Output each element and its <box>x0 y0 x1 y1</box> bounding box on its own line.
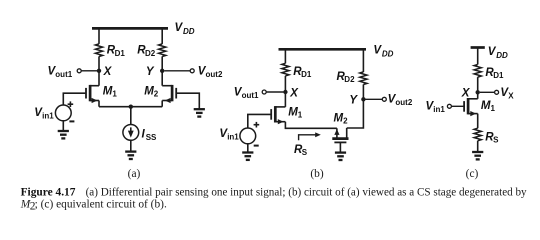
svg-text:D1: D1 <box>301 70 312 79</box>
terminal Vin1 (c) <box>447 104 451 108</box>
svg-text:2: 2 <box>154 89 159 98</box>
svg-text:S: S <box>493 135 499 144</box>
wire: RD2 to node Y and M2 drain corner (a) <box>161 56 163 85</box>
svg-text:in1: in1 <box>42 112 54 121</box>
svg-text:DD: DD <box>496 51 508 60</box>
ground under ISS (a) <box>125 152 136 159</box>
svg-text:M: M <box>334 112 344 124</box>
wire: M1 source down to RS (c) <box>477 114 479 129</box>
wire: Y to Vout2 terminal (a) <box>164 70 190 72</box>
source Vin1 (b) <box>240 128 256 144</box>
transistor M1 (c) <box>464 98 478 116</box>
wire: VDD supply rail (a) <box>92 27 168 30</box>
wire: ISS to ground (a) <box>130 140 132 151</box>
svg-text:out1: out1 <box>242 91 259 100</box>
svg-text:D2: D2 <box>145 49 156 58</box>
node X (b) <box>283 90 287 94</box>
node Y (a) <box>160 69 164 73</box>
wire: X to VX terminal (c) <box>480 91 495 93</box>
wire: rail to RD1 (a) <box>98 27 100 44</box>
wire: Vout1 terminal to X (b) <box>266 91 283 93</box>
source Vin1 (a) <box>55 105 71 121</box>
svg-text:2: 2 <box>343 116 348 125</box>
svg-text:DD: DD <box>183 27 195 36</box>
svg-text:out1: out1 <box>55 70 72 79</box>
ground under Vin1 (b) <box>242 153 253 160</box>
wire: M2 gate to ground (a) <box>176 93 199 109</box>
svg-text:D1: D1 <box>493 71 504 80</box>
minus sign of Vin1 (b) <box>254 145 259 147</box>
terminal Vout1 (b) <box>262 90 266 94</box>
wire: RD1 to node X and M1 drain corner (b) <box>284 76 286 107</box>
svg-text:M: M <box>481 100 491 112</box>
wire: RD1 to node X and M1 drain corner (c) <box>477 77 479 99</box>
svg-text:in1: in1 <box>227 132 239 141</box>
node tail junction (a) <box>129 105 133 109</box>
svg-text:out2: out2 <box>395 98 412 107</box>
svg-text:Y: Y <box>146 66 155 78</box>
svg-text:1: 1 <box>298 111 303 120</box>
transistor M1 (b) <box>271 106 285 124</box>
svg-text:D2: D2 <box>344 75 355 84</box>
svg-text:(a) Differential pair sensing: (a) Differential pair sensing one input … <box>86 187 527 199</box>
svg-text:X: X <box>103 66 113 78</box>
current source ISS (a) <box>123 124 139 140</box>
ground at M2 gate (b) <box>335 153 346 160</box>
plus sign of Vin1 (a) <box>68 101 74 107</box>
svg-text:M: M <box>103 85 113 97</box>
svg-text:Figure 4.17: Figure 4.17 <box>21 187 76 199</box>
wire: RD2 to rail (b) <box>362 48 364 72</box>
wire: RD1 to node X and M1 drain corner (a) <box>98 56 100 85</box>
wire: Y up to RD2 (b) <box>362 84 364 99</box>
svg-text:1: 1 <box>491 104 496 113</box>
wire: M1 source down and across to M2 source (b) <box>285 122 337 129</box>
svg-text:M: M <box>288 107 298 119</box>
power VDD bar (c) <box>471 46 485 49</box>
wire: Y to Vout2 terminal (b) <box>366 98 383 100</box>
svg-text:in1: in1 <box>433 105 445 114</box>
svg-text:SS: SS <box>146 133 157 142</box>
terminal Vout2 (a) <box>190 69 194 73</box>
ground under Vin1 (a) <box>58 131 69 138</box>
transistor M1 (a) <box>86 85 99 103</box>
ground at M2 gate (a) <box>194 109 205 116</box>
wire: VDD bar to RD1 (c) <box>477 48 479 65</box>
svg-text:DD: DD <box>382 50 394 59</box>
wire: M1 source down to tail (a) <box>98 101 100 107</box>
wire: M2 drain up to node Y (b) <box>347 99 364 128</box>
svg-text:S: S <box>302 148 308 157</box>
terminal Vout1 (a) <box>77 69 81 73</box>
svg-text:out2: out2 <box>206 70 223 79</box>
svg-text:(c): (c) <box>466 168 479 180</box>
wire: Vin1 to ground (a) <box>62 121 64 131</box>
node Y (b) <box>361 97 365 101</box>
resistor RD1 (b) <box>282 63 289 76</box>
resistor RD2 (b) <box>360 72 367 85</box>
svg-text:(b): (b) <box>310 168 323 180</box>
resistor RD2 (a) <box>159 44 166 57</box>
transistor M2 (a) <box>162 85 176 103</box>
wire: tail joining M1 and M2 sources (a) <box>99 106 162 108</box>
transistor M2 rotated (b) <box>332 128 348 142</box>
wire: rail to RD2 (a) <box>161 27 163 44</box>
node X (a) <box>97 69 101 73</box>
wire: M2 source down to tail (a) <box>161 101 163 107</box>
wire: VDD supply rail (b) <box>279 48 367 51</box>
svg-text:M: M <box>144 85 154 97</box>
ground under RS (c) <box>472 152 483 159</box>
svg-text:D1: D1 <box>115 49 126 58</box>
wire: tail to ISS (a) <box>130 107 132 125</box>
resistor RD1 (c) <box>474 65 481 78</box>
svg-text:1: 1 <box>112 89 117 98</box>
svg-text:(a): (a) <box>128 168 141 180</box>
node X (c) <box>476 90 480 94</box>
svg-text:X: X <box>461 87 471 99</box>
svg-text:X: X <box>289 87 299 99</box>
wire: M2 gate to ground (b) <box>339 142 341 152</box>
svg-text:; (c) equivalent circuit of (b: ; (c) equivalent circuit of (b). <box>35 199 167 211</box>
svg-text:Y: Y <box>349 94 358 106</box>
terminal Vout2 (b) <box>382 97 386 101</box>
wire: M1 gate to Vin1 (a) <box>63 93 86 105</box>
wire: rail to RD1 (b) <box>284 48 286 63</box>
wire: M1 gate to Vin1 terminal (c) <box>452 105 465 107</box>
wire: RS to ground (c) <box>477 141 479 152</box>
wire: M1 gate to Vin1 (b) <box>248 114 271 128</box>
wire: Vin1 to ground (b) <box>247 144 249 152</box>
resistor RS (c) <box>474 128 481 141</box>
plus sign of Vin1 (b) <box>254 122 260 128</box>
wire: Vout1 terminal to X (a) <box>81 70 97 72</box>
arrow RS looking into M2 source (b) <box>299 135 317 140</box>
svg-text:X: X <box>508 91 514 100</box>
minus sign of Vin1 (a) <box>69 120 74 122</box>
resistor RD1 (a) <box>95 44 102 57</box>
terminal VX (c) <box>495 90 499 94</box>
